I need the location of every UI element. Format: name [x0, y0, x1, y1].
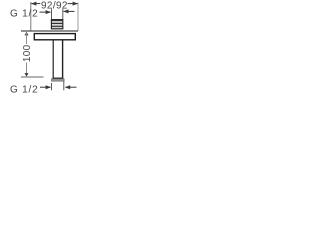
- dimension 92/92 right extension line: [77, 3, 79, 32]
- svg-text:100: 100: [22, 44, 33, 62]
- dimension 92/92 left extension line: [30, 2, 32, 31]
- pipe bottom edge: [52, 77, 63, 79]
- dimension 92/92 left dimension line with arrow: [31, 2, 40, 6]
- escutcheon plate: [34, 34, 75, 40]
- pipe right wall: [62, 40, 64, 78]
- thread dimension left extension line: [51, 9, 53, 19]
- pipe left wall: [52, 40, 54, 78]
- bottom thread fitting: [52, 79, 65, 81]
- dimension 100 up arrow: [25, 32, 29, 44]
- bottom thread dimension right arrow: [65, 85, 77, 89]
- dimension 100 down arrow: [25, 63, 29, 77]
- bottom thread dimension left arrow: [40, 85, 51, 89]
- dimension 92/92 right dimension line with arrow: [68, 2, 78, 6]
- svg-text:92/92: 92/92: [41, 0, 68, 11]
- svg-text:G 1/2: G 1/2: [10, 84, 38, 95]
- thread dimension left arrow: [40, 10, 52, 14]
- bottom thread dimension right extension line: [63, 81, 65, 90]
- thread dimension right extension line: [62, 9, 64, 19]
- dimension 100 bottom extension line: [21, 76, 44, 78]
- ceiling line: [21, 30, 78, 32]
- thread dimension right arrow: [63, 9, 74, 13]
- bottom thread dimension left extension line: [51, 83, 53, 90]
- svg-text:G 1/2: G 1/2: [10, 8, 38, 19]
- threaded connector block: [51, 20, 62, 29]
